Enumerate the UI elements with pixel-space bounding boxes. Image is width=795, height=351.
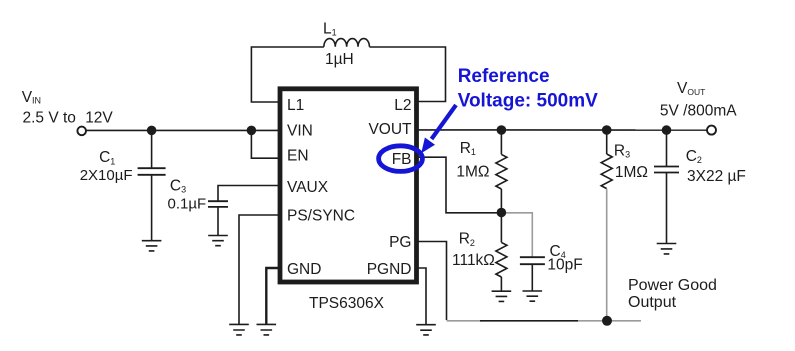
svg-text:1µH: 1µH bbox=[325, 51, 354, 68]
wire PGND branch bbox=[417, 268, 426, 325]
svg-text:VIN: VIN bbox=[22, 89, 41, 106]
wire VAUX branch bbox=[218, 186, 279, 202]
node junction C1 tap bbox=[147, 126, 157, 136]
wire PS/SYNC branch bbox=[239, 215, 279, 324]
wire L1 pin to inductor loop left bbox=[251, 47, 324, 102]
annotation ellipse FB highlight bbox=[379, 146, 423, 172]
ground PS/SYNC bbox=[229, 324, 249, 335]
svg-text:1MΩ: 1MΩ bbox=[456, 163, 489, 180]
wire C4 branch bbox=[503, 213, 532, 257]
ground R2 bbox=[492, 291, 512, 301]
svg-text:TPS6306X: TPS6306X bbox=[309, 295, 385, 312]
svg-text:VOUT: VOUT bbox=[368, 121, 412, 138]
ground C1 bbox=[142, 241, 162, 251]
svg-text:3X22 µF: 3X22 µF bbox=[687, 168, 746, 185]
svg-text:PG: PG bbox=[389, 234, 411, 251]
svg-text:C3: C3 bbox=[170, 178, 186, 195]
terminal VOUT output bbox=[707, 126, 716, 135]
op IC U1 TPS6306X body bbox=[280, 89, 417, 282]
capacitor C2 bbox=[654, 130, 679, 243]
svg-text:FB: FB bbox=[392, 151, 412, 168]
capacitor C4 bbox=[520, 257, 545, 291]
svg-text:Power Good: Power Good bbox=[628, 277, 717, 294]
capacitor C3 bbox=[208, 201, 228, 235]
ground C2 bbox=[657, 244, 677, 254]
node junction EN/L branch bbox=[247, 126, 257, 136]
wire PG output stub bbox=[607, 320, 641, 322]
svg-text:0.1µF: 0.1µF bbox=[168, 196, 207, 213]
svg-text:C1: C1 bbox=[99, 149, 115, 166]
node junction R3 top bbox=[602, 125, 612, 135]
svg-text:5V /800mA: 5V /800mA bbox=[660, 102, 737, 119]
svg-text:C2: C2 bbox=[686, 148, 702, 165]
svg-text:10pF: 10pF bbox=[547, 256, 582, 273]
ground PGND bbox=[416, 325, 436, 335]
svg-text:R1: R1 bbox=[460, 140, 476, 157]
svg-text:111kΩ: 111kΩ bbox=[452, 252, 495, 269]
svg-text:1MΩ: 1MΩ bbox=[615, 164, 648, 181]
ground GND bbox=[257, 324, 277, 335]
wire FB branch bbox=[417, 157, 501, 213]
ground C4 bbox=[523, 291, 543, 301]
wire PG run to node bbox=[480, 320, 578, 322]
svg-text:Reference: Reference bbox=[458, 66, 550, 87]
resistor R3 bbox=[601, 130, 612, 189]
svg-text:EN: EN bbox=[287, 148, 309, 165]
svg-text:PGND: PGND bbox=[367, 261, 412, 278]
wire VOUT rail bbox=[417, 129, 711, 131]
inductor L1 bbox=[324, 39, 370, 47]
node junction R1 top bbox=[497, 125, 507, 135]
capacitor C1 bbox=[138, 130, 166, 240]
node junction PG bbox=[602, 316, 612, 326]
wire PG branch bbox=[417, 242, 447, 321]
svg-text:12V: 12V bbox=[85, 110, 113, 127]
ground C3 bbox=[208, 236, 228, 246]
svg-text:2.5 V to: 2.5 V to bbox=[23, 110, 76, 127]
wire PG run near node (grey) bbox=[578, 320, 607, 322]
wire EN branch bbox=[251, 130, 279, 158]
wire inductor to L2 pin bbox=[369, 47, 445, 102]
terminal VIN input bbox=[77, 127, 86, 136]
node junction C2 top bbox=[662, 125, 672, 135]
svg-text:L1: L1 bbox=[323, 21, 337, 38]
wire GND branch bbox=[266, 268, 279, 324]
resistor R1 bbox=[496, 130, 507, 212]
resistor R2 bbox=[496, 212, 507, 291]
svg-text:VIN: VIN bbox=[287, 123, 313, 140]
node junction FB divider bbox=[497, 208, 507, 218]
svg-text:R2: R2 bbox=[459, 231, 475, 248]
svg-text:Output: Output bbox=[628, 294, 677, 311]
svg-text:L2: L2 bbox=[394, 97, 411, 114]
wire PG run (grey elbow) bbox=[447, 320, 482, 322]
svg-text:Voltage: 500mV: Voltage: 500mV bbox=[458, 91, 598, 112]
wire R3 bottom to PG node bbox=[606, 189, 608, 321]
svg-text:R3: R3 bbox=[614, 143, 630, 160]
svg-text:VOUT: VOUT bbox=[677, 80, 705, 97]
wire input rail bbox=[86, 129, 279, 131]
svg-text:PS/SYNC: PS/SYNC bbox=[287, 208, 355, 225]
svg-text:2X10µF: 2X10µF bbox=[80, 167, 133, 184]
svg-text:L1: L1 bbox=[287, 97, 304, 114]
svg-text:GND: GND bbox=[287, 261, 321, 278]
svg-text:VAUX: VAUX bbox=[287, 179, 329, 196]
annotation arrow to FB bbox=[421, 105, 456, 153]
